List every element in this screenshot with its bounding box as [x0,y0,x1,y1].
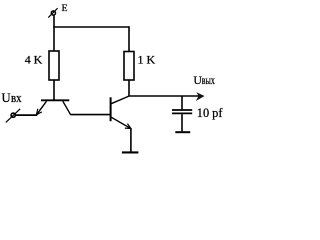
terminal E slash [48,8,57,17]
transistor Q2 emitter arrowhead [125,124,131,129]
wire: output line [129,95,202,97]
wire: Q2 emitter down to ground [130,128,132,152]
terminal input circle [11,113,15,117]
wire: rail down to 1K resistor [128,26,130,52]
svg-text:U: U [2,91,11,105]
svg-text:10 pf: 10 pf [197,106,224,120]
transistor Q1 collector [63,101,71,115]
wire: input terminal to Q1 emitter [15,114,37,116]
terminal input slash [6,109,20,123]
svg-text:4: 4 [25,53,31,67]
ground bar (emitter) [122,151,138,153]
svg-text:вх: вх [11,91,22,105]
transistor Q1 emitter [37,101,47,114]
resistor R2 1K [124,52,134,81]
capacitor C1 bottom lead [181,114,183,131]
svg-text:1 K: 1 K [138,52,156,66]
transistor Q2 base bar [110,97,112,121]
transistor Q2 collector [111,96,129,104]
transistor Q2 emitter [111,117,130,128]
wire: Q1 collector to Q2 base [70,114,110,116]
capacitor C1 top plate [172,109,192,111]
transistor Q1 base bar [41,99,69,101]
svg-text:K: K [34,53,43,67]
output arrowhead [196,92,205,101]
capacitor C1 top lead [181,96,183,109]
wire: top rail horizontal [53,26,129,28]
terminal E circle [51,11,55,15]
transistor Q1 emitter arrowhead [36,109,42,115]
wire: 4K bottom to T1 base [53,80,55,101]
wire: E down to 4K resistor [53,15,55,51]
svg-text:вых: вых [202,74,215,87]
ground bar (capacitor) [175,131,190,133]
capacitor C1 bottom plate [172,112,192,114]
resistor R1 4K [49,51,59,80]
svg-text:E: E [62,3,68,14]
wire: 1K bottom to output node [128,80,130,97]
